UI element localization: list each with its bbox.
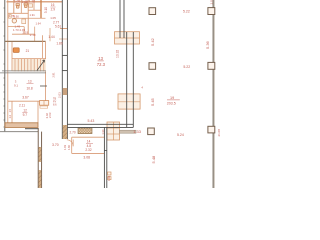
stair top wall xyxy=(12,58,46,60)
svg-text:203.5: 203.5 xyxy=(167,101,176,105)
room14 walls xyxy=(72,136,105,138)
svg-text:5.22: 5.22 xyxy=(183,65,190,69)
strip wall line B xyxy=(66,0,68,139)
svg-text:1.05: 1.05 xyxy=(50,16,56,20)
svg-text:1.10: 1.10 xyxy=(29,0,35,3)
svg-text:2.70: 2.70 xyxy=(70,130,76,134)
round fixture xyxy=(12,19,16,23)
svg-text:13.32: 13.32 xyxy=(115,50,119,58)
small cabinet fixtures xyxy=(9,4,33,24)
strip hatch fill xyxy=(63,125,67,139)
svg-text:5.61: 5.61 xyxy=(55,25,61,29)
wc fixture 2 xyxy=(24,3,27,8)
hall right wall xyxy=(212,0,214,188)
svg-text:3.67: 3.67 xyxy=(22,95,29,99)
svg-text:2.32: 2.32 xyxy=(85,148,91,152)
column C6 xyxy=(208,126,215,133)
svg-text:1.05: 1.05 xyxy=(14,0,20,3)
svg-text:1.33: 1.33 xyxy=(133,129,142,134)
svg-text:2.11: 2.11 xyxy=(19,104,25,108)
room12 right wall xyxy=(37,101,39,123)
wall y26.5 xyxy=(8,26,24,28)
svg-text:5.48: 5.48 xyxy=(151,155,156,164)
left frame ruler line xyxy=(4,0,6,132)
svg-text:2.10: 2.10 xyxy=(30,33,36,37)
svg-text:1.30: 1.30 xyxy=(101,129,105,135)
dark ledge line xyxy=(25,128,38,130)
big room bottom double wall xyxy=(67,123,133,125)
svg-text:1.2: 1.2 xyxy=(9,114,12,118)
svg-text:9.7: 9.7 xyxy=(23,113,28,117)
svg-text:2.81: 2.81 xyxy=(52,72,56,78)
wall x41 strong xyxy=(40,0,42,18)
column C5 xyxy=(148,128,155,135)
column C2 xyxy=(208,8,215,15)
svg-text:2.19: 2.19 xyxy=(23,31,29,35)
small orange boxes on wall xyxy=(108,172,111,175)
wall y101 xyxy=(8,100,46,102)
svg-text:3.08: 3.08 xyxy=(83,155,90,159)
svg-text:13: 13 xyxy=(28,79,32,83)
wall x27 xyxy=(27,0,29,34)
hall lower-left double wall xyxy=(103,127,105,188)
column C1 xyxy=(149,8,156,15)
stair bottom double line xyxy=(2,70,46,72)
wall y10 xyxy=(28,9,41,11)
pilaster block 2 xyxy=(118,94,140,109)
small box fixture xyxy=(40,101,49,106)
svg-text:2.03: 2.03 xyxy=(58,92,62,98)
svg-text:2.9: 2.9 xyxy=(51,7,56,11)
big room right double wall xyxy=(119,0,121,38)
svg-text:10.8: 10.8 xyxy=(27,86,33,90)
svg-text:5.45: 5.45 xyxy=(150,97,155,106)
top exterior wall xyxy=(7,1,63,3)
svg-text:5.43: 5.43 xyxy=(88,119,95,123)
svg-text:3.10: 3.10 xyxy=(44,7,48,13)
stair arrow xyxy=(37,60,45,71)
room12 left wall xyxy=(11,101,13,123)
wall stub bar xyxy=(120,130,137,133)
column C4 xyxy=(208,62,215,69)
strip tan fill xyxy=(63,88,67,95)
svg-text:3.70: 3.70 xyxy=(52,143,59,147)
svg-text:0.90: 0.90 xyxy=(14,14,20,18)
frame tick marks xyxy=(3,8,4,127)
svg-text:2.0: 2.0 xyxy=(209,0,213,4)
exterior ground line bottom-left xyxy=(0,131,38,133)
strip wall line A xyxy=(61,0,63,139)
staircase xyxy=(12,59,46,71)
svg-text:1.73: 1.73 xyxy=(13,28,19,32)
wall y13 xyxy=(8,12,28,14)
svg-text:2.03: 2.03 xyxy=(48,112,52,118)
pilaster block 1 xyxy=(115,32,140,44)
svg-text:21.08: 21.08 xyxy=(217,129,221,137)
svg-text:1.64: 1.64 xyxy=(36,22,42,26)
door swing arc xyxy=(67,140,73,146)
svg-text:5.42: 5.42 xyxy=(150,37,155,46)
wc fixture 1 xyxy=(16,4,19,9)
corridor wall x45.5 xyxy=(45,41,47,101)
svg-text:5.24: 5.24 xyxy=(177,133,184,137)
wall x20 top xyxy=(20,0,22,13)
svg-text:12: 12 xyxy=(23,109,27,113)
svg-text:1.5: 1.5 xyxy=(9,108,12,112)
corner shaft block xyxy=(107,122,120,140)
ticks on it xyxy=(104,149,106,151)
column C3 xyxy=(149,63,156,70)
svg-text:1.91: 1.91 xyxy=(30,13,36,17)
wall x50 xyxy=(49,28,51,41)
svg-text:5.22: 5.22 xyxy=(183,10,190,14)
svg-text:5.36: 5.36 xyxy=(205,40,210,49)
wall x24 xyxy=(23,27,25,35)
room12 bottom thick wall xyxy=(5,123,38,128)
wall y34 xyxy=(12,33,35,35)
room21 right wall xyxy=(42,35,44,58)
svg-text:21: 21 xyxy=(26,49,30,53)
strip ticks xyxy=(62,54,67,56)
crosshatch wall block xyxy=(78,128,92,134)
svg-text:1.44: 1.44 xyxy=(48,35,54,39)
svg-text:13: 13 xyxy=(98,56,103,61)
svg-text:9.1: 9.1 xyxy=(14,83,18,87)
inner left wall mid xyxy=(11,41,13,71)
hatched wall fill xyxy=(39,147,42,162)
svg-text:1.89: 1.89 xyxy=(56,41,62,45)
left outer wall xyxy=(7,0,9,123)
wall y18 xyxy=(12,17,46,19)
svg-text:19: 19 xyxy=(170,96,174,100)
svg-text:1.48: 1.48 xyxy=(22,0,28,4)
svg-text:14: 14 xyxy=(87,140,91,144)
svg-text:8.6: 8.6 xyxy=(53,103,57,106)
svg-text:1.86: 1.86 xyxy=(107,175,111,181)
svg-text:72.3: 72.3 xyxy=(97,62,106,67)
inner left wall upper xyxy=(13,0,15,13)
wall x34 top xyxy=(33,0,35,10)
wall x34.7 xyxy=(34,27,36,42)
svg-text:1.60: 1.60 xyxy=(67,144,71,150)
wall y41 xyxy=(5,40,46,42)
svg-text:1.93: 1.93 xyxy=(63,144,67,150)
tick y86 xyxy=(40,85,47,87)
orange label box xyxy=(13,48,19,53)
lower-left double wall going down xyxy=(37,128,39,188)
